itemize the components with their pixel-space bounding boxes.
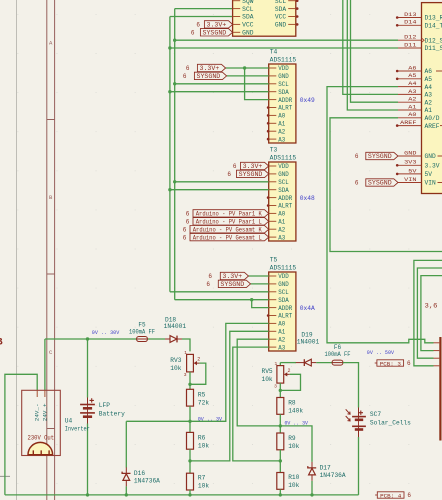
svg-text:3.3V+: 3.3V+ — [207, 22, 227, 29]
T5 pin A2 — [269, 336, 286, 343]
svg-text:SDA: SDA — [278, 89, 289, 96]
T3 pin VDD — [269, 163, 289, 170]
T4 pin A3 — [269, 136, 286, 143]
svg-text:VDD: VDD — [278, 273, 289, 280]
global label SYSGND at U3 GND — [191, 29, 233, 37]
svg-text:Arduino - PV Gesamt L: Arduino - PV Gesamt L — [193, 234, 262, 241]
T5 pin ALRT unconnected dot — [267, 314, 270, 317]
wire T5 GND from SYSGND label — [251, 283, 269, 285]
T4 pin ALRT unconnected dot — [267, 106, 270, 109]
wire T5 SDA from bus corner — [175, 299, 269, 301]
wire connector pin2 from right edge — [421, 276, 442, 351]
battery BT LFP — [80, 398, 125, 424]
junction D12 bus — [173, 39, 176, 42]
T4 pin A0 unconnected dot — [267, 114, 270, 117]
wire T3 SDA to bus — [170, 189, 269, 191]
wire RV5 wiper loop — [280, 374, 300, 390]
resistor R8 140k — [277, 398, 304, 415]
svg-text:D12: D12 — [404, 34, 417, 41]
junction R6/R7 node — [188, 459, 191, 462]
svg-text:ADDR: ADDR — [278, 195, 292, 202]
junction T3 SCL bus — [173, 180, 176, 183]
junction T5 SDA/ADDR — [250, 298, 253, 301]
global label SYSGND at T5 GND — [206, 280, 250, 288]
Arduino pin GND — [398, 149, 436, 160]
svg-text:6: 6 — [227, 171, 231, 178]
svg-text:10k: 10k — [198, 442, 209, 449]
svg-text:3,6: 3,6 — [425, 302, 438, 309]
connector pin 1 — [434, 342, 440, 344]
sheet border frame — [47, 0, 55, 500]
wire T5 A0 to R5/R6 node — [190, 323, 269, 421]
svg-text:A3: A3 — [425, 92, 433, 99]
junction RV5 loop — [279, 389, 282, 392]
wire Arduino A3 from top — [343, 0, 398, 94]
svg-text:A5: A5 — [408, 72, 417, 79]
T5 pin GND — [269, 281, 289, 288]
svg-text:230V Out: 230V Out — [28, 435, 55, 442]
wire RV5 top — [279, 363, 281, 366]
svg-text:Battery: Battery — [99, 410, 125, 417]
junction T4 SDA bus — [168, 90, 171, 93]
T4 pin A2 unconnected dot — [267, 130, 270, 133]
wire inverter 24V- to ground — [5, 374, 37, 495]
wire T4 ADDR tie to VDD — [245, 68, 269, 100]
Arduino pin AREF — [396, 119, 440, 130]
op-amp A1 Arduino Nano body (cropped at right) — [422, 3, 442, 194]
T4 pin SCL — [269, 81, 289, 88]
svg-text:A2: A2 — [278, 336, 285, 343]
U3 pin SDA left — [233, 14, 254, 21]
svg-text:3.3V+: 3.3V+ — [243, 163, 263, 170]
T4 pin A2 — [269, 128, 286, 135]
svg-text:0x4A: 0x4A — [300, 305, 315, 312]
svg-text:SDA: SDA — [275, 6, 287, 13]
svg-text:R9: R9 — [288, 435, 296, 442]
wire Arduino A2 from top — [351, 0, 399, 102]
T4 pin GND — [269, 73, 289, 80]
wire D16 to rail — [125, 486, 127, 495]
Arduino pin D12 — [398, 34, 442, 45]
junction rail R7 — [188, 493, 191, 496]
svg-text:ADDR: ADDR — [278, 97, 292, 104]
svg-text:ALRT: ALRT — [278, 105, 292, 112]
svg-text:B: B — [0, 338, 3, 349]
svg-text:3.3V: 3.3V — [425, 163, 440, 170]
T4 pin VDD — [269, 65, 289, 72]
Arduino pin A0 — [398, 111, 440, 122]
potentiometer RV5 10k — [262, 361, 291, 389]
T5 pin A1 — [269, 329, 286, 336]
wire D18 cathode side — [182, 339, 190, 351]
fuse F6 100mA FF — [325, 344, 351, 365]
svg-text:ADS1115: ADS1115 — [270, 57, 297, 64]
svg-text:A2: A2 — [408, 96, 417, 103]
svg-text:VIN: VIN — [425, 180, 437, 187]
svg-text:D13_R: D13_R — [425, 15, 442, 22]
svg-text:1: 1 — [184, 350, 187, 356]
svg-text:6: 6 — [233, 163, 237, 170]
wire R7 to ground rail — [189, 490, 191, 495]
global label Arduino - PV Gesamt K — [183, 226, 269, 234]
svg-text:R5: R5 — [198, 392, 206, 399]
T3 pin A2 — [269, 226, 286, 233]
svg-text:140k: 140k — [288, 408, 303, 415]
svg-text:0V .. 50V: 0V .. 50V — [367, 349, 395, 356]
svg-text:3.3V+: 3.3V+ — [222, 273, 242, 280]
svg-text:T5: T5 — [270, 257, 278, 264]
T4 pin A1 — [269, 121, 286, 128]
wire T4 VDD from 3.3V+ label — [226, 67, 269, 69]
svg-text:RV3: RV3 — [170, 357, 181, 364]
svg-text:6: 6 — [196, 22, 200, 29]
wire Arduino A4 down to PCB connector — [327, 87, 434, 343]
svg-text:GND: GND — [404, 149, 417, 156]
junction T3 SDA bus — [168, 188, 171, 191]
wire T5 ADDR tie to SDA — [252, 300, 269, 308]
svg-text:6: 6 — [183, 226, 187, 233]
svg-text:T4: T4 — [270, 49, 278, 56]
wire R9 to R10 — [279, 450, 281, 473]
svg-text:GND: GND — [242, 30, 254, 37]
wire R10 to rail — [279, 489, 281, 495]
U3 pin SCL left — [233, 6, 254, 13]
wire T5 A1 to R6/R7 node — [190, 331, 269, 461]
svg-text:A6: A6 — [425, 68, 433, 75]
svg-text:R10: R10 — [288, 474, 299, 481]
U3 pin SQW left — [233, 0, 254, 5]
wire T4 SCL to bus — [175, 83, 269, 85]
T4 pin A0 — [269, 113, 286, 120]
Arduino pin A4 — [398, 80, 432, 91]
svg-text:SYSGND: SYSGND — [368, 180, 392, 187]
Arduino pin A5 — [396, 72, 432, 83]
svg-text:6: 6 — [407, 360, 411, 367]
svg-text:SYSGND: SYSGND — [368, 153, 392, 160]
wire T3 SCL to bus — [175, 181, 269, 183]
label PCB: 3 — [375, 360, 411, 368]
zener D16 1N4736A — [122, 467, 160, 486]
junction rail D17 — [310, 493, 313, 496]
svg-text:Solar_Cells: Solar_Cells — [370, 419, 411, 426]
svg-text:SCL: SCL — [278, 289, 289, 296]
svg-text:A1: A1 — [408, 103, 417, 110]
wire RV3 wiper loop — [190, 363, 206, 384]
svg-text:A3: A3 — [278, 234, 285, 241]
potentiometer RV3 10k — [170, 350, 200, 378]
svg-text:A0: A0 — [278, 211, 285, 218]
global label SYSGND at Arduino VIN — [355, 179, 398, 187]
junction battery top — [86, 337, 89, 340]
wire T5 VDD from 3.3V+ label — [249, 275, 269, 277]
connector pin 4 — [434, 365, 440, 367]
svg-text:6: 6 — [191, 30, 195, 37]
svg-text:6: 6 — [208, 273, 212, 280]
svg-text:R8: R8 — [288, 400, 296, 407]
zener D17 1N4736A — [308, 462, 346, 481]
wire D16 branch — [126, 420, 190, 422]
wire T4 GND from SYSGND label — [227, 75, 269, 77]
wire SCL bus vertical — [174, 9, 176, 300]
svg-text:PCB: 4: PCB: 4 — [380, 492, 402, 499]
svg-text:2: 2 — [197, 357, 200, 363]
svg-text:A0: A0 — [278, 113, 285, 120]
svg-text:Arduino - PV Gesamt K: Arduino - PV Gesamt K — [193, 226, 262, 233]
svg-text:10k: 10k — [288, 482, 299, 489]
svg-text:24V_-: 24V_- — [34, 404, 41, 422]
wire Arduino A0 to right edge — [330, 118, 442, 252]
T3 pin A1 — [269, 219, 286, 226]
U3 pin GND left — [233, 30, 254, 37]
Arduino pin 5V — [396, 167, 432, 178]
wire T5 SCL from bus corner — [170, 291, 269, 293]
svg-text:RV5: RV5 — [262, 368, 273, 375]
wire D11 from SDA bus — [170, 47, 398, 49]
global label SYSGND at T3 GND — [227, 170, 268, 178]
svg-text:A1: A1 — [278, 329, 285, 336]
svg-text:6: 6 — [183, 234, 187, 241]
svg-text:A2: A2 — [278, 226, 285, 233]
wire R6 to R7 — [189, 449, 191, 473]
page limit grey line — [0, 0, 17, 500]
svg-text:Arduino - PV Paar1 L: Arduino - PV Paar1 L — [196, 219, 262, 226]
U3 pin VCC left — [233, 22, 254, 29]
solar cell SC7 — [346, 408, 411, 438]
wire ground rail — [5, 494, 359, 496]
T4 pin ADDR — [269, 97, 293, 104]
svg-text:GND: GND — [278, 73, 289, 80]
Arduino AREF internal separator — [440, 125, 442, 127]
svg-text:Arduino - PV Paar1 K: Arduino - PV Paar1 K — [196, 211, 262, 218]
svg-text:SCL: SCL — [278, 179, 289, 186]
svg-text:A1: A1 — [425, 107, 433, 114]
junction R8/R9 0V..3V node — [279, 424, 282, 427]
svg-text:R6: R6 — [198, 434, 206, 441]
svg-text:SC7: SC7 — [370, 411, 381, 418]
svg-text:3: 3 — [184, 372, 187, 378]
svg-text:A0: A0 — [408, 111, 417, 118]
svg-text:A6: A6 — [408, 64, 417, 71]
junction D11 bus — [168, 46, 171, 49]
svg-text:3.3V+: 3.3V+ — [200, 65, 220, 72]
svg-text:6: 6 — [183, 73, 187, 80]
svg-text:U4: U4 — [65, 418, 73, 425]
svg-text:GND: GND — [278, 171, 289, 178]
svg-text:AREF: AREF — [425, 123, 440, 130]
svg-text:100mA FF: 100mA FF — [325, 351, 351, 358]
svg-text:VDD: VDD — [278, 65, 289, 72]
svg-text:D13: D13 — [404, 11, 417, 18]
T3 pin ADDR unconnected dot — [267, 196, 270, 199]
svg-text:GND: GND — [278, 281, 289, 288]
Arduino A6 internal separator — [436, 70, 442, 72]
wire solar cells to rail — [358, 437, 360, 495]
global label 3.3V+ at T3 VDD — [233, 162, 269, 170]
global label SYSGND at T4 GND — [183, 72, 227, 80]
T5 pin ADDR — [269, 305, 293, 312]
wire R8 to R9 — [279, 414, 281, 433]
wire battery bottom to rail — [87, 424, 89, 495]
junction rail D16 — [125, 493, 128, 496]
inverter U4 box — [22, 390, 90, 455]
T5 pin ALRT — [269, 313, 293, 320]
T5 pin SDA — [269, 297, 289, 304]
svg-text:D16: D16 — [134, 470, 145, 477]
svg-text:SDA: SDA — [278, 297, 289, 304]
resistor R7 10k — [187, 473, 210, 490]
svg-text:VIN: VIN — [404, 176, 416, 183]
svg-text:6: 6 — [355, 153, 359, 160]
wire connector pin3 from right edge — [417, 268, 442, 358]
wire D12 from SCL bus — [175, 39, 398, 41]
wire T5 A2 to R8/R9 node — [237, 339, 280, 426]
svg-text:6: 6 — [186, 219, 190, 226]
T5 pin SCL — [269, 289, 289, 296]
junction R5/R6 0V..3V node — [188, 420, 191, 423]
svg-text:1N4736A: 1N4736A — [320, 472, 346, 479]
svg-text:0V .. 3V: 0V .. 3V — [198, 415, 223, 422]
wire 0V..30V rail — [45, 338, 165, 340]
junction R9/R10 node — [279, 459, 282, 462]
Arduino D12 input pin arrow — [422, 38, 425, 42]
svg-text:D17: D17 — [320, 465, 331, 472]
svg-text:100mA FF: 100mA FF — [129, 328, 155, 335]
T3 pin GND — [269, 171, 289, 178]
junction battery bottom rail — [86, 493, 89, 496]
U3 pin GND right unconnected — [275, 22, 299, 29]
Arduino GND internal separator — [438, 155, 442, 157]
svg-text:AREF: AREF — [400, 119, 417, 126]
svg-text:D11: D11 — [404, 41, 417, 48]
wire R5 to R6 — [189, 406, 191, 432]
svg-text:T3: T3 — [270, 147, 278, 154]
wire T4 SDA to bus — [170, 91, 269, 93]
svg-text:A3: A3 — [278, 344, 285, 351]
svg-text:A4: A4 — [425, 84, 433, 91]
svg-text:10k: 10k — [170, 365, 181, 372]
svg-text:SDA: SDA — [278, 187, 289, 194]
svg-text:ADS1115: ADS1115 — [270, 265, 297, 272]
Arduino pin A1 — [398, 103, 432, 114]
T5 pin A0 — [269, 321, 286, 328]
T5 pin VDD — [269, 273, 289, 280]
svg-text:0x49: 0x49 — [300, 97, 315, 104]
junction rail R10 — [279, 493, 282, 496]
wire RV3 bottom to R5 — [189, 372, 191, 389]
wire RV5 top rail to solar — [280, 362, 296, 364]
svg-text:A5: A5 — [425, 76, 433, 83]
svg-text:A3: A3 — [278, 136, 285, 143]
svg-text:D14: D14 — [404, 19, 417, 26]
wire D16 vertical top — [125, 421, 127, 467]
Arduino pin D13 — [396, 11, 442, 22]
U3 pin SCL right unconnected — [275, 0, 299, 5]
svg-text:SDA: SDA — [242, 14, 254, 21]
Arduino pin VIN — [398, 176, 436, 187]
wire top IC SCL — [175, 8, 233, 10]
wire SDA bus vertical — [169, 17, 171, 292]
global label SYSGND at Arduino GND — [355, 152, 398, 160]
svg-text:6: 6 — [355, 180, 359, 187]
op-amp T4 ADS1115 body — [269, 49, 297, 144]
resistor R10 10k — [277, 473, 300, 490]
svg-text:10k: 10k — [262, 376, 273, 383]
svg-text:SCL: SCL — [278, 81, 289, 88]
svg-text:A1: A1 — [278, 219, 285, 226]
T5 pin A3 — [269, 344, 286, 351]
svg-text:A4: A4 — [408, 80, 417, 87]
svg-text:D11_S: D11_S — [425, 45, 442, 52]
U3 pin VCC right unconnected — [275, 14, 299, 21]
wire D19 to F6 — [316, 362, 332, 364]
svg-text:R7: R7 — [198, 474, 206, 481]
T4 pin A3 unconnected dot — [267, 138, 270, 141]
svg-text:3V3: 3V3 — [404, 159, 417, 166]
svg-text:0x48: 0x48 — [300, 195, 315, 202]
svg-text:D14_T: D14_T — [425, 23, 442, 30]
svg-text:5V: 5V — [425, 171, 433, 178]
svg-text:6: 6 — [186, 211, 190, 218]
global label 3.3V+ at T5 VDD — [208, 272, 248, 280]
wire F6 to solar cells — [343, 363, 359, 408]
svg-text:A0: A0 — [278, 321, 285, 328]
svg-text:1: 1 — [275, 361, 278, 367]
svg-text:2: 2 — [288, 368, 291, 374]
junction T4 SCL bus — [173, 82, 176, 85]
global label Arduino - PV Paar1 L — [186, 218, 269, 226]
wire inverter 24V+ from rail — [44, 339, 46, 390]
svg-text:SYSGND: SYSGND — [203, 30, 227, 37]
connector J PCB body edge (cropped) — [439, 337, 441, 441]
global label Arduino - PV Gesamt L — [183, 233, 269, 241]
global label 3.3V+ at U3 VCC — [196, 21, 232, 29]
svg-text:6: 6 — [206, 281, 210, 288]
T4 pin SDA — [269, 89, 289, 96]
wire RV5 bottom to R8 — [279, 383, 281, 397]
Arduino pin D11 — [398, 41, 442, 52]
svg-text:3: 3 — [274, 383, 277, 389]
connector pin 2 — [434, 350, 440, 352]
svg-text:A3: A3 — [408, 88, 417, 95]
T3 pin SDA — [269, 187, 289, 194]
svg-text:ADS1115: ADS1115 — [270, 155, 297, 162]
svg-text:24V_+: 24V_+ — [41, 403, 48, 421]
T4 pin A1 unconnected dot — [267, 122, 270, 125]
svg-text:Inverter: Inverter — [65, 425, 90, 432]
wire D17 to rail — [311, 481, 313, 495]
U3 pin SDA right unconnected — [275, 6, 299, 13]
global label Arduino - PV Paar1 K — [186, 210, 269, 218]
diode D18 1N4001 — [164, 316, 187, 342]
svg-text:5V: 5V — [408, 167, 417, 174]
svg-text:SCL: SCL — [242, 6, 254, 13]
svg-text:LFP: LFP — [99, 402, 110, 409]
svg-text:SYSGND: SYSGND — [239, 171, 263, 178]
svg-text:VCC: VCC — [242, 22, 254, 29]
svg-text:A0/D: A0/D — [425, 115, 440, 122]
svg-text:6: 6 — [186, 65, 190, 72]
svg-text:SYSGND: SYSGND — [220, 281, 244, 288]
T3 pin A0 — [269, 211, 286, 218]
Arduino VIN internal separator — [438, 182, 442, 184]
op-amp U3 RTC body (cropped at top) — [233, 0, 296, 36]
wire Arduino A1 from top — [347, 0, 398, 110]
svg-text:VCC: VCC — [275, 14, 287, 21]
T3 pin SCL — [269, 179, 289, 186]
svg-text:10k: 10k — [288, 443, 299, 450]
Arduino pin A2 — [398, 96, 432, 107]
svg-text:PCB: 3: PCB: 3 — [380, 360, 402, 367]
